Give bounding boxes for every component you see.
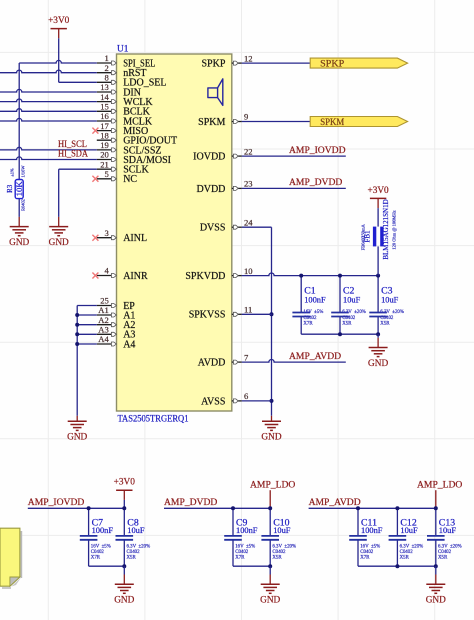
svg-text:16V ±5%: 16V ±5% (235, 545, 255, 550)
svg-text:DVDD: DVDD (197, 184, 226, 195)
svg-text:U1: U1 (117, 45, 129, 55)
svg-text:SPKVSS: SPKVSS (189, 310, 226, 321)
svg-text:X5R: X5R (438, 555, 448, 560)
svg-text:150mA: 150mA (360, 223, 365, 237)
svg-text:C0402: C0402 (272, 550, 286, 555)
svg-text:10uF: 10uF (127, 526, 145, 535)
svg-text:SPKM: SPKM (198, 117, 225, 128)
svg-text:TAS2505TRGERQ1: TAS2505TRGERQ1 (118, 414, 189, 424)
svg-text:X5R: X5R (127, 555, 137, 560)
svg-text:16V ±5%: 16V ±5% (91, 545, 111, 550)
svg-text:16V ±5%: 16V ±5% (303, 310, 323, 315)
svg-text:GND: GND (114, 596, 134, 606)
svg-text:+3V0: +3V0 (367, 186, 389, 196)
svg-text:3: 3 (105, 228, 109, 238)
svg-text:SPKVDD: SPKVDD (185, 271, 225, 282)
svg-text:GND: GND (368, 359, 388, 369)
svg-text:A2: A2 (98, 315, 109, 325)
svg-text:120 Ohm @ 100MHz: 120 Ohm @ 100MHz (391, 210, 396, 249)
svg-text:AMP_AVDD: AMP_AVDD (309, 497, 361, 508)
svg-text:C0402: C0402 (438, 550, 452, 555)
svg-text:15: 15 (100, 102, 109, 112)
svg-text:C0402: C0402 (342, 316, 356, 321)
svg-text:19: 19 (100, 140, 109, 150)
svg-text:A3: A3 (98, 325, 109, 335)
svg-text:10: 10 (244, 266, 253, 276)
svg-text:GND: GND (67, 433, 87, 443)
svg-text:C0402: C0402 (127, 550, 141, 555)
svg-text:NC: NC (123, 174, 137, 185)
svg-text:9: 9 (244, 112, 248, 122)
svg-text:24: 24 (244, 217, 253, 227)
svg-text:HI_SDA: HI_SDA (58, 149, 88, 160)
svg-text:+3V0: +3V0 (114, 478, 136, 488)
svg-text:100nF: 100nF (304, 295, 326, 304)
svg-text:C0402: C0402 (360, 550, 374, 555)
svg-text:6.3V ±20%: 6.3V ±20% (272, 545, 296, 550)
svg-text:25: 25 (100, 296, 109, 306)
svg-text:GND: GND (49, 238, 69, 248)
svg-text:AINL: AINL (123, 233, 147, 244)
svg-text:AMP_IOVDD: AMP_IOVDD (28, 497, 85, 508)
svg-text:100nF: 100nF (236, 526, 258, 535)
svg-text:X5R: X5R (380, 322, 390, 327)
svg-text:11: 11 (244, 305, 252, 315)
svg-text:12: 12 (244, 53, 253, 63)
svg-text:17: 17 (100, 121, 109, 131)
svg-text:X7R: X7R (303, 322, 313, 327)
svg-text:FB0402: FB0402 (360, 236, 365, 251)
svg-text:SPKM: SPKM (320, 118, 345, 128)
svg-text:13: 13 (100, 82, 109, 92)
svg-text:AVSS: AVSS (201, 396, 225, 407)
svg-text:X5R: X5R (272, 555, 282, 560)
svg-text:A1: A1 (98, 305, 109, 315)
svg-text:100nF: 100nF (92, 526, 114, 535)
svg-text:C0402: C0402 (400, 550, 414, 555)
svg-text:AMP_DVDD: AMP_DVDD (289, 177, 342, 188)
svg-text:SPKP: SPKP (320, 60, 344, 70)
svg-text:C0402: C0402 (235, 550, 249, 555)
svg-text:GND: GND (261, 433, 281, 443)
svg-text:7: 7 (244, 352, 249, 362)
svg-text:X7R: X7R (360, 555, 370, 560)
svg-text:8: 8 (105, 73, 109, 83)
svg-text:14: 14 (100, 92, 109, 102)
svg-text:AINR: AINR (123, 271, 148, 282)
svg-text:10uF: 10uF (273, 526, 291, 535)
svg-text:AVDD: AVDD (198, 358, 226, 369)
svg-text:GND: GND (426, 596, 446, 606)
svg-text:1: 1 (105, 53, 109, 63)
svg-text:20: 20 (100, 150, 109, 160)
svg-text:10K: 10K (14, 181, 24, 197)
svg-text:X5R: X5R (342, 322, 352, 327)
svg-text:22: 22 (244, 146, 253, 156)
svg-text:IOVDD: IOVDD (193, 152, 225, 163)
svg-text:16: 16 (100, 111, 109, 121)
svg-text:10uF: 10uF (439, 526, 457, 535)
svg-text:21: 21 (100, 159, 109, 169)
svg-text:5: 5 (105, 169, 109, 179)
svg-text:±1%: ±1% (10, 168, 15, 177)
svg-text:6: 6 (244, 391, 249, 401)
svg-text:+3V0: +3V0 (48, 16, 70, 26)
svg-text:AMP_LDO: AMP_LDO (417, 479, 462, 490)
svg-text:2: 2 (105, 63, 109, 73)
svg-text:SPKP: SPKP (201, 59, 225, 70)
svg-text:C0402: C0402 (91, 550, 105, 555)
svg-text:A4: A4 (123, 339, 135, 350)
svg-text:R0402: R0402 (20, 199, 25, 211)
svg-text:10uF: 10uF (381, 295, 399, 304)
svg-text:16V ±5%: 16V ±5% (360, 545, 380, 550)
svg-text:C0402: C0402 (380, 316, 394, 321)
svg-text:18: 18 (100, 130, 109, 140)
svg-text:6.3V ±20%: 6.3V ±20% (400, 545, 424, 550)
svg-text:GND: GND (9, 238, 29, 248)
svg-text:1/16W: 1/16W (20, 165, 25, 178)
svg-text:4: 4 (105, 266, 110, 276)
svg-text:X5R: X5R (400, 555, 410, 560)
svg-text:6.3V ±20%: 6.3V ±20% (438, 545, 462, 550)
svg-text:GND: GND (260, 596, 280, 606)
svg-text:BLM15AG121SN1D: BLM15AG121SN1D (382, 199, 390, 259)
svg-text:6.3V ±20%: 6.3V ±20% (342, 310, 366, 315)
svg-text:AMP_DVDD: AMP_DVDD (164, 497, 217, 508)
svg-text:X7R: X7R (235, 555, 245, 560)
svg-text:10uF: 10uF (400, 526, 418, 535)
svg-text:100nF: 100nF (361, 526, 383, 535)
svg-text:A4: A4 (98, 334, 109, 344)
svg-text:6.3V ±20%: 6.3V ±20% (127, 545, 151, 550)
svg-text:AMP_AVDD: AMP_AVDD (289, 351, 341, 362)
svg-text:C0402: C0402 (303, 316, 317, 321)
svg-text:6.3V ±20%: 6.3V ±20% (380, 310, 404, 315)
svg-text:X7R: X7R (91, 555, 101, 560)
svg-text:AMP_IOVDD: AMP_IOVDD (289, 145, 346, 156)
svg-text:10uF: 10uF (343, 295, 361, 304)
svg-text:DVSS: DVSS (200, 223, 226, 234)
svg-text:23: 23 (244, 179, 253, 189)
svg-text:AMP_LDO: AMP_LDO (250, 479, 295, 490)
svg-text:R3: R3 (6, 184, 14, 193)
